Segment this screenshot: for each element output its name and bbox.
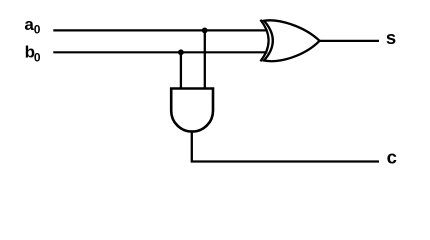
svg-text:0: 0 xyxy=(34,50,41,64)
svg-text:0: 0 xyxy=(34,23,41,37)
svg-text:s: s xyxy=(386,27,396,48)
svg-text:c: c xyxy=(387,147,397,168)
